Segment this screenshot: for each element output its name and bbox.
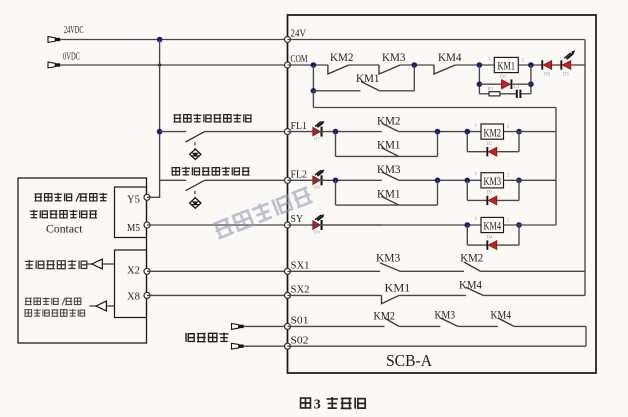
svg-text:D1: D1 — [500, 74, 507, 80]
node coil KM2 right — [516, 129, 522, 135]
wire SO1 to loop right — [514, 325, 586, 327]
caption figure number 3 — [314, 398, 321, 413]
wire D1 branch left — [479, 83, 501, 85]
contact KM1 NO FL1 branch — [381, 148, 398, 157]
label KM3 FL2 rung — [377, 162, 401, 176]
node snubber right mid — [528, 81, 534, 87]
label KM1 COM branch — [356, 71, 380, 85]
svg-text:KM1: KM1 — [356, 71, 380, 85]
wire coil KM4 to return bus — [504, 224, 557, 226]
wire KM1 snubber right vertical — [530, 65, 532, 94]
wire flyback bottom left D3 — [467, 199, 486, 201]
wire coil KM2 to return bus — [504, 131, 557, 133]
terminal FL1 label — [291, 120, 308, 132]
wire KM1 branch right segment — [380, 90, 415, 92]
connector door-lock SO1 — [232, 324, 244, 330]
svg-text:S01: S01 — [291, 315, 309, 327]
terminal Y5 label — [127, 194, 140, 206]
label relevel signal detect line2 — [25, 309, 85, 317]
svg-text:KM2: KM2 — [377, 113, 401, 127]
svg-text:KM1: KM1 — [377, 138, 401, 152]
terminal COM — [285, 62, 291, 68]
svg-text:KM2: KM2 — [484, 127, 502, 139]
contact KM4 NO SO1 rung — [498, 318, 514, 326]
wire KM2-KM3 — [349, 64, 379, 66]
contact KM1 NO COM branch — [361, 82, 380, 91]
svg-text:KM4: KM4 — [484, 221, 502, 233]
label lower relevel door zone input — [172, 167, 249, 176]
node COM branch A — [311, 62, 317, 68]
node coil KM1 right — [528, 62, 534, 68]
wire COM to KM2 contact — [288, 64, 328, 66]
svg-text:X8: X8 — [127, 291, 140, 303]
contact KM2 NO SX1 rung — [464, 262, 481, 271]
connector block X2/X8 — [115, 250, 147, 318]
wire coil KM3 to return bus — [504, 179, 557, 181]
wire FL1 branch riser — [437, 132, 439, 157]
wire flyback left vertical D4 — [466, 225, 468, 245]
wire D6-D5 — [552, 64, 560, 66]
wire Y5 to 24VDC drop — [147, 196, 160, 198]
svg-text:2: 2 — [521, 57, 524, 63]
label KM4 SO1 rung — [491, 308, 512, 322]
wire SO1 KM3-KM4 — [458, 325, 498, 327]
wire flyback bottom left D4 — [467, 244, 486, 246]
terminal FL2 — [285, 177, 291, 183]
terminal 24V label — [291, 28, 307, 40]
svg-text:Y5: Y5 — [127, 194, 140, 206]
node coil KM1 left — [477, 62, 483, 68]
wire FL2 branch riser — [437, 180, 439, 205]
wire X2 to SX1 — [147, 270, 288, 272]
label Contact — [46, 222, 83, 236]
controller output box (left) — [18, 178, 147, 343]
wire FL1 switch left — [160, 131, 187, 133]
contact KM3 NO SO1 rung — [440, 318, 458, 326]
svg-text:2: 2 — [507, 217, 510, 223]
label advance door open line1 — [34, 193, 107, 202]
node KM1 branch left — [311, 88, 317, 94]
svg-text:1: 1 — [488, 56, 491, 62]
svg-text:D5: D5 — [563, 73, 569, 78]
terminal SY — [285, 222, 291, 228]
node coil KM4 left — [465, 222, 471, 228]
wire FL2 terminal to LED — [288, 179, 314, 181]
wire straight to coil SY — [311, 224, 481, 226]
svg-text:D8: D8 — [314, 185, 320, 190]
wire SX1 to KM3 contact — [288, 270, 381, 272]
connector 0VDC input plug — [48, 62, 60, 68]
label KM1 FL1 branch — [377, 138, 401, 152]
svg-text:KM1: KM1 — [385, 281, 411, 295]
crossing dot 0VDC — [158, 63, 161, 66]
flyback diode D3 — [486, 191, 496, 205]
terminal SY label — [291, 213, 304, 225]
svg-text:S02: S02 — [291, 334, 309, 346]
label upper relevel door zone input — [173, 114, 250, 123]
wire KM1 branch left segment — [313, 90, 360, 92]
wire FL2 branch vertical down — [335, 180, 337, 205]
contact KM3 NO FL2 rung — [382, 172, 399, 180]
terminal Y5 — [144, 194, 150, 200]
contact KM3 NO COM rung — [379, 65, 400, 74]
svg-text:FL2: FL2 — [291, 169, 308, 181]
connector block Y5/M5 — [115, 187, 147, 238]
terminal SX2 label — [291, 284, 310, 296]
svg-text:FL1: FL1 — [291, 120, 308, 132]
wire KM4 to coil KM1 — [455, 64, 494, 66]
terminal 24V — [285, 37, 291, 43]
label KM4 SX2 rung — [459, 278, 482, 292]
wire KM3-KM4 — [400, 64, 434, 66]
svg-text:24VDC: 24VDC — [64, 25, 84, 36]
wire KM1 snubber left vertical — [478, 65, 480, 94]
wire 24VDC rail — [60, 39, 287, 41]
label KM2 SO1 rung — [374, 309, 396, 323]
terminal SX1 — [285, 268, 291, 274]
svg-text:KM4: KM4 — [438, 50, 462, 64]
terminal M5 label — [127, 222, 140, 234]
wire flyback left vertical D3 — [466, 180, 468, 200]
node KM1 branch rejoin — [412, 62, 418, 68]
svg-text:X2: X2 — [127, 265, 140, 277]
terminal FL1 — [285, 129, 291, 135]
svg-text:3: 3 — [314, 398, 321, 413]
terminal SX2 — [285, 292, 291, 298]
label KM3 SO1 rung — [435, 308, 456, 322]
svg-text:D7: D7 — [314, 136, 320, 141]
label door lock loop — [186, 332, 229, 342]
svg-text:SX2: SX2 — [291, 284, 310, 296]
junction node 24VDC drop — [157, 37, 163, 43]
label KM4 COM rung — [438, 50, 462, 64]
svg-text:M5: M5 — [127, 222, 140, 234]
node FL1 branch split — [333, 129, 339, 135]
label SCB-A — [386, 351, 433, 370]
wire SO2 return — [288, 345, 587, 347]
svg-text:KM3: KM3 — [377, 162, 401, 176]
wire coil return bus vertical — [555, 108, 557, 226]
svg-text:COM: COM — [291, 53, 308, 65]
arrow detect signal output — [90, 301, 115, 311]
label KM1 FL2 branch — [377, 186, 401, 200]
wire 24VDC vertical drop — [159, 40, 161, 198]
node snubber left mid — [477, 81, 483, 87]
wire LED to contact chain FL2 — [311, 179, 382, 181]
terminal M5 — [144, 222, 150, 228]
wire D5 to 24V bus — [571, 64, 585, 66]
wire FL2 switch left — [160, 179, 187, 181]
svg-text:D4: D4 — [487, 235, 493, 240]
wire RC branch left — [479, 93, 489, 95]
terminal S02 — [285, 343, 291, 349]
terminal X8 label — [127, 291, 140, 303]
node coil KM3 left — [465, 178, 471, 184]
wire SX2 KM1-KM4 — [399, 294, 466, 296]
wire return feeder horizontal — [313, 107, 556, 109]
resistor R1 — [488, 87, 501, 96]
node FL2 branch rejoin — [435, 178, 441, 184]
wire SO1 connector lead — [244, 325, 288, 327]
flyback diode D2 — [486, 142, 496, 157]
node coil KM4 right — [516, 222, 522, 228]
svg-text:2: 2 — [507, 124, 510, 130]
sensor magnet symbol upper — [190, 142, 201, 159]
wire flyback right vertical D3 — [518, 180, 520, 200]
label relay output line2 — [30, 210, 97, 218]
caption shi-wu-tu — [327, 397, 366, 409]
contact KM2 NO COM rung — [328, 65, 349, 74]
label KM2 SX1 rung — [460, 251, 483, 265]
wire SO2 connector lead — [244, 345, 288, 347]
contact KM1 NO SX2 rung — [382, 295, 400, 303]
junction node drop at FL1 switch — [157, 129, 163, 135]
node coil KM3 right — [516, 178, 522, 184]
wire SO loop vertical — [585, 326, 587, 346]
svg-text:KM3: KM3 — [376, 251, 400, 265]
contact KM2 NO FL1 rung — [382, 123, 399, 131]
connector door-lock SO2 — [232, 343, 244, 349]
label 0VDC — [63, 52, 80, 63]
SCB-A board enclosure box — [288, 15, 597, 373]
wire FL2 switch right — [205, 179, 288, 181]
sensor magnet symbol lower — [190, 191, 201, 208]
terminal X2 — [144, 268, 150, 274]
label KM1 SX2 rung — [385, 281, 411, 295]
contact KM4 NO SX2 rung — [466, 287, 483, 295]
watermark dianti-ge-luntan — [212, 185, 312, 239]
diode D6 — [541, 60, 551, 77]
svg-text:1: 1 — [475, 171, 478, 177]
wire SO1 to KM2 contact — [288, 325, 385, 327]
svg-text:R1: R1 — [488, 87, 494, 93]
connector 24VDC input plug — [48, 37, 60, 43]
LED D5 — [560, 60, 570, 77]
svg-text:KM3: KM3 — [484, 176, 502, 188]
wire FL2 branch horizontal — [336, 204, 438, 206]
svg-text:KM1: KM1 — [498, 61, 516, 73]
LED D9 SY row — [313, 214, 325, 234]
svg-text:KM2: KM2 — [330, 50, 354, 64]
node coil KM2 left — [465, 129, 471, 135]
terminal FL2 label — [291, 169, 308, 181]
terminal S02 label — [291, 334, 309, 346]
wire flyback bottom right D2 — [497, 151, 519, 153]
wire SX1 KM3-KM2 — [400, 270, 464, 272]
wire COM branch vertical — [312, 65, 314, 91]
wire LED to contact chain SY — [311, 224, 382, 226]
svg-text:SY: SY — [291, 213, 304, 225]
wire M5 to SY — [147, 224, 288, 226]
svg-text:D2: D2 — [487, 142, 493, 147]
svg-text:SX1: SX1 — [291, 260, 310, 272]
LED D7 FL1 row — [313, 121, 325, 141]
node FL1 branch rejoin — [435, 129, 441, 135]
relay coil KM3 — [475, 171, 510, 188]
label KM3 SX1 rung — [376, 251, 400, 265]
wire KM1 branch riser — [413, 65, 415, 91]
label KM2 FL1 rung — [377, 113, 401, 127]
relay coil KM2 — [475, 123, 510, 140]
wire SY terminal to LED — [288, 224, 314, 226]
wire coil KM1 to node D — [518, 64, 541, 66]
relay coil KM4 — [475, 216, 510, 233]
relay coil KM1 — [488, 56, 525, 73]
node FL2 branch split — [333, 178, 339, 184]
terminal S01 — [285, 323, 291, 329]
diode D1 — [500, 74, 512, 89]
wire LED to contact chain FL1 — [311, 131, 382, 133]
wire 24V bus vertical — [584, 40, 586, 296]
wire SO1 KM2-KM3 — [399, 325, 440, 327]
wire 0VDC rail — [60, 64, 287, 66]
arrow door zone signal output — [86, 259, 115, 269]
svg-text:D3: D3 — [487, 191, 493, 196]
svg-text:D6: D6 — [544, 73, 550, 78]
terminal S01 label — [291, 315, 309, 327]
wire FL1 switch right — [205, 131, 288, 133]
wire flyback right vertical D2 — [518, 132, 520, 152]
svg-text:D9: D9 — [314, 229, 320, 234]
LED D5 emission arrows — [564, 50, 575, 59]
switch blade lower door zone — [186, 180, 205, 190]
caption tu (figure) — [301, 398, 311, 408]
wire FL1 branch horizontal — [336, 155, 438, 157]
svg-text:Contact: Contact — [46, 222, 83, 236]
svg-text:1: 1 — [475, 123, 478, 129]
svg-text:C1: C1 — [514, 84, 520, 90]
wire R1 to C1 — [500, 93, 516, 95]
terminal SX1 label — [291, 260, 310, 272]
wire SX2 to 24V bus — [483, 294, 585, 296]
wire D1 branch right — [513, 83, 531, 85]
label 24VDC — [64, 25, 84, 36]
svg-text:KM3: KM3 — [382, 50, 406, 64]
switch blade upper door zone — [186, 132, 205, 142]
wire C1 to right vertical — [521, 93, 531, 95]
wire FL1 branch vertical down — [335, 132, 337, 157]
svg-text:24V: 24V — [291, 28, 307, 40]
LED D8 FL2 row — [313, 170, 325, 190]
terminal X2 label — [127, 265, 140, 277]
terminal COM label — [291, 53, 308, 65]
wire COM drop to return feeder — [312, 91, 314, 108]
svg-text:KM2: KM2 — [374, 309, 396, 323]
contact KM3 NO SX1 rung — [380, 263, 400, 271]
wire SX2 to KM1 contact — [288, 294, 382, 296]
label KM2 COM rung — [330, 50, 354, 64]
label KM3 COM rung — [382, 50, 406, 64]
wire flyback left vertical D2 — [466, 132, 468, 152]
contact KM2 NO SO1 rung — [385, 318, 400, 326]
capacitor C1 — [514, 84, 522, 98]
label door zone signal input — [25, 260, 87, 269]
wire contact to coil FL1 — [399, 131, 481, 133]
svg-text:KM1: KM1 — [377, 186, 401, 200]
wire X8 to SX2 — [147, 294, 288, 296]
wire flyback bottom right D3 — [497, 199, 519, 201]
wire SX1 to 24V bus — [481, 270, 586, 272]
wire 24V rail horizontal — [288, 39, 586, 41]
wire FL1 terminal to LED — [288, 131, 314, 133]
contact KM4 NO COM rung — [434, 65, 455, 74]
wire flyback right vertical D4 — [518, 225, 520, 245]
svg-text:1: 1 — [475, 216, 478, 222]
flyback diode D4 — [486, 235, 496, 249]
svg-text:0VDC: 0VDC — [63, 52, 80, 63]
wire contact to coil FL2 — [399, 179, 481, 181]
contact KM1 NO FL2 branch — [381, 196, 398, 205]
wire flyback bottom left D2 — [467, 151, 486, 153]
svg-text:2: 2 — [507, 173, 510, 179]
svg-text:SCB-A: SCB-A — [386, 351, 433, 370]
wire flyback bottom right D4 — [497, 244, 519, 246]
terminal X8 — [144, 292, 150, 298]
label advance door open detect line1 — [25, 297, 81, 305]
